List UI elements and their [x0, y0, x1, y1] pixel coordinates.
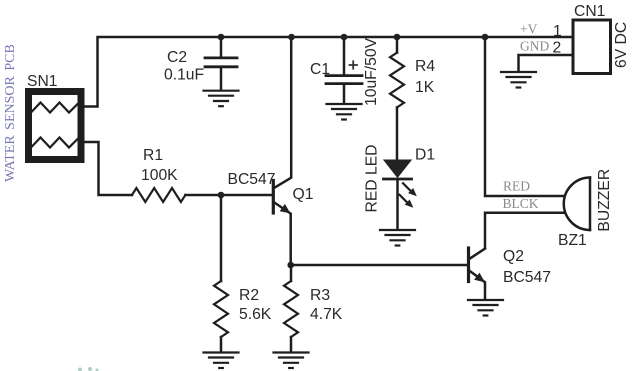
- svg-text:D1: D1: [415, 147, 435, 164]
- svg-text:BUZZER: BUZZER: [596, 169, 613, 232]
- resistor R2 5.6K: [214, 281, 228, 337]
- Q2 emitter: [470, 271, 485, 299]
- svg-text:BLCK: BLCK: [503, 196, 539, 211]
- svg-text:BZ1: BZ1: [558, 232, 587, 249]
- svg-text:1: 1: [553, 23, 562, 40]
- node: top rail / C2 junction: [218, 34, 225, 41]
- svg-text:R3: R3: [310, 287, 330, 304]
- ground (C2): [204, 91, 239, 107]
- transistor Q1 BC547: [273, 37, 291, 265]
- svg-text:0.1uF: 0.1uF: [164, 66, 204, 83]
- wire: sensor bottom terminal to R1: [84, 142, 132, 195]
- ground (Q2 emitter): [468, 300, 503, 316]
- node: top rail / C1 junction: [341, 34, 348, 41]
- wire: junction to Q2 base: [291, 264, 467, 267]
- resistor R3 4.7K: [284, 281, 298, 337]
- svg-text:CN1: CN1: [574, 3, 605, 20]
- svg-text:6V DC: 6V DC: [613, 22, 630, 68]
- D1 wire to ground: [396, 180, 399, 229]
- svg-text:R4: R4: [415, 58, 435, 75]
- Q1 collector: [275, 37, 292, 188]
- svg-text:BC547: BC547: [503, 269, 551, 286]
- svg-text:C1: C1: [310, 61, 330, 78]
- svg-text:GND: GND: [520, 39, 549, 54]
- svg-text:C2: C2: [167, 49, 187, 66]
- wire: R4 to D1: [396, 107, 399, 159]
- water sensor PCB SN1: [29, 92, 82, 160]
- resistor R4 1K: [390, 53, 404, 108]
- svg-text:R2: R2: [239, 287, 259, 304]
- LED D1: [384, 160, 417, 229]
- ground (R2): [204, 353, 239, 369]
- wire: junction down to R3: [290, 265, 293, 281]
- D1 light arrow 1: [403, 183, 412, 192]
- capacitor C1 10uF/50V: [326, 37, 362, 103]
- sensor electrode zigzag 2: [31, 138, 79, 148]
- faint green artifact bottom-left: [78, 367, 99, 371]
- svg-text:BC547: BC547: [228, 171, 276, 188]
- C1 plus sign: [350, 61, 358, 68]
- ground (CN1 GND): [501, 72, 536, 88]
- wire: rail to R4: [396, 37, 399, 53]
- svg-text:RED LED: RED LED: [364, 145, 381, 213]
- wire: junction down to R2: [220, 195, 223, 281]
- wire: +V down to buzzer RED lead: [485, 37, 564, 196]
- ground (D1): [380, 230, 415, 246]
- pin 2 wire: CN1 GND to ground: [519, 55, 574, 71]
- Q1 base bar: [272, 181, 275, 214]
- svg-text:RED: RED: [503, 178, 530, 193]
- D1 cathode bar: [384, 178, 412, 181]
- transistor Q2 BC547: [469, 248, 486, 299]
- wire: R2 to ground: [220, 337, 223, 352]
- connector CN1: [573, 20, 611, 74]
- wire: top +V rail from sensor top terminal to CN1 pin 1: [84, 37, 573, 107]
- D1 light arrow 2: [400, 195, 409, 204]
- svg-text:Q2: Q2: [503, 248, 524, 265]
- ground (R3): [274, 353, 309, 369]
- node: top rail / R4 junction: [394, 34, 401, 41]
- ground (C1): [327, 104, 362, 120]
- Q2 collector: [470, 249, 485, 259]
- sensor electrode zigzag 1: [31, 103, 79, 113]
- Q1 emitter: [275, 203, 291, 265]
- svg-text:+V: +V: [520, 22, 538, 37]
- node: top rail / Q1 collector junction: [288, 34, 295, 41]
- svg-text:5.6K: 5.6K: [239, 306, 272, 323]
- svg-text:2: 2: [553, 40, 562, 57]
- Q2 emitter arrow: [474, 273, 485, 283]
- Q1 emitter arrow: [280, 204, 291, 214]
- capacitor C2 0.1uF: [205, 37, 237, 90]
- D1 anode triangle: [385, 160, 411, 177]
- node: R1 / R2 / Q1 base junction: [218, 192, 225, 199]
- Q2 base bar: [467, 248, 470, 282]
- svg-text:1K: 1K: [415, 79, 435, 96]
- svg-text:Q1: Q1: [293, 186, 314, 203]
- svg-text:10uF/50V: 10uF/50V: [363, 37, 380, 106]
- wire: R3 to ground: [290, 337, 293, 352]
- svg-text:R1: R1: [143, 147, 163, 164]
- wire: buzzer BLCK lead to Q2 collector: [485, 213, 565, 249]
- wire: R1 to Q1 base: [185, 194, 271, 197]
- svg-text:WATER SENSOR PCB: WATER SENSOR PCB: [3, 44, 18, 182]
- buzzer BZ1: [564, 178, 590, 231]
- svg-text:4.7K: 4.7K: [310, 306, 343, 323]
- node: Q1 emitter / R3 / Q2 base junction: [287, 262, 294, 269]
- resistor R1 100K: [132, 188, 185, 202]
- svg-text:SN1: SN1: [27, 73, 58, 90]
- node: top rail / buzzer +V junction: [482, 34, 489, 41]
- svg-text:100K: 100K: [141, 167, 178, 184]
